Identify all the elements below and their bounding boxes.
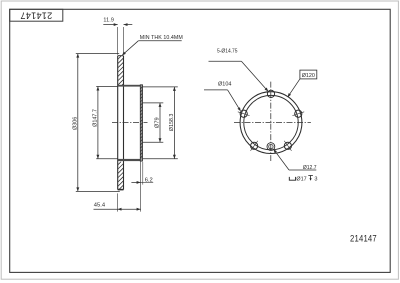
svg-text:214147: 214147 <box>350 233 377 244</box>
svg-text:Ø306: Ø306 <box>72 117 78 130</box>
svg-text:Ø17: Ø17 <box>296 176 306 182</box>
svg-text:Ø158.3: Ø158.3 <box>169 114 175 132</box>
svg-text:Ø120: Ø120 <box>302 73 315 79</box>
svg-text:Ø104: Ø104 <box>218 82 231 88</box>
svg-text:3: 3 <box>314 176 317 182</box>
svg-text:11.9: 11.9 <box>103 18 114 24</box>
svg-text:5-Ø14.75: 5-Ø14.75 <box>217 48 238 54</box>
svg-text:MIN THK 10.4MM: MIN THK 10.4MM <box>140 35 183 41</box>
svg-text:45.4: 45.4 <box>94 203 106 209</box>
svg-text:6.2: 6.2 <box>145 177 153 183</box>
svg-text:Ø147.7: Ø147.7 <box>92 109 98 127</box>
svg-text:Ø79: Ø79 <box>155 117 161 128</box>
svg-text:214147: 214147 <box>20 10 52 20</box>
